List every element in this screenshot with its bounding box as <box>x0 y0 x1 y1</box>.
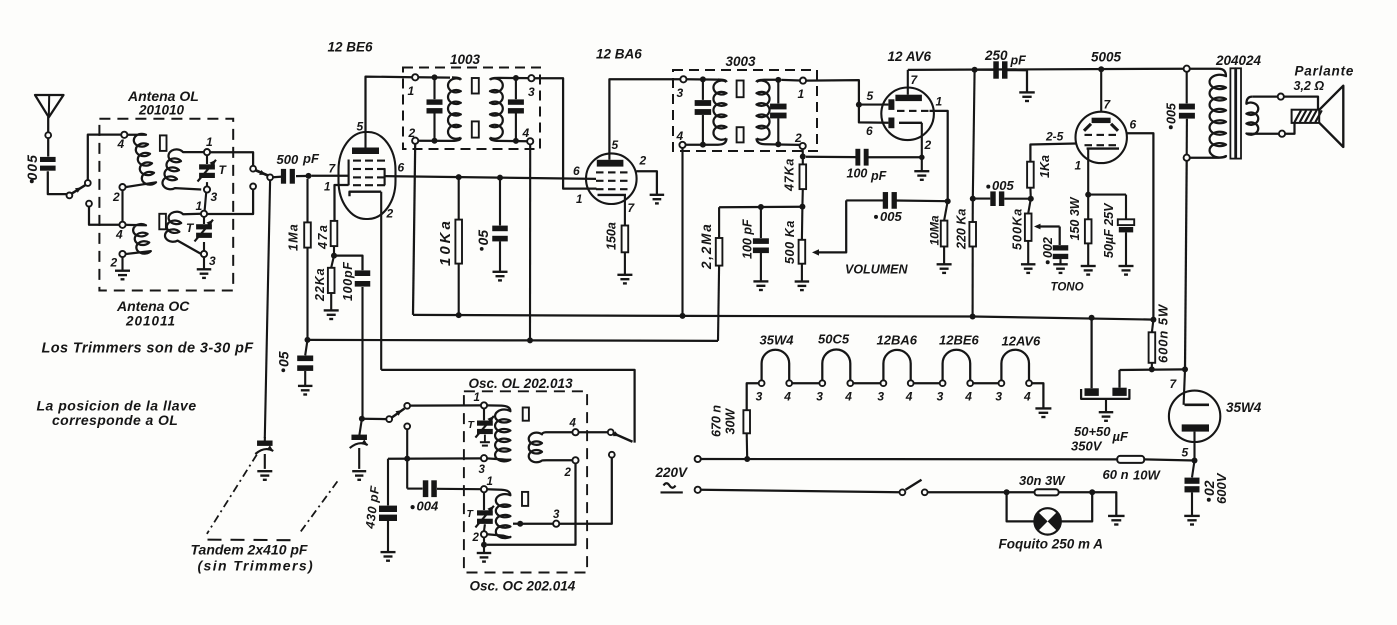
ground .002 <box>1053 263 1068 265</box>
node <box>527 337 533 343</box>
capacitor tandem C1 <box>264 437 266 441</box>
svg-text:201011: 201011 <box>125 314 176 329</box>
wire <box>206 155 208 164</box>
tube 12AV6 cathode <box>899 122 922 124</box>
transformer Antena OL secondary pin 3 <box>204 186 210 192</box>
node <box>700 76 706 82</box>
heater chain links <box>792 382 819 384</box>
node <box>1192 458 1198 464</box>
IFT 3003 terminal 1 <box>800 78 806 84</box>
wire osc switch to OL pin1 <box>410 404 481 406</box>
resistor 30ohm 3W <box>1007 491 1035 493</box>
pilot lamp Foquito <box>1007 492 1035 521</box>
volume wiper <box>816 200 847 252</box>
svg-text:2: 2 <box>794 131 802 145</box>
svg-text:3: 3 <box>816 390 823 404</box>
node <box>432 74 438 80</box>
wire <box>687 78 719 81</box>
leader horizontal <box>208 539 294 542</box>
resistor 22K <box>331 256 334 268</box>
ground 10M <box>937 263 952 265</box>
node <box>331 253 337 259</box>
svg-text:4: 4 <box>569 418 577 430</box>
osc OL coil pin2 <box>572 457 578 463</box>
svg-text:1003: 1003 <box>450 52 481 67</box>
svg-text:220V: 220V <box>655 465 689 480</box>
wire diode load <box>719 206 802 209</box>
core IFT3003 <box>737 81 744 98</box>
capacitor .005 antenna <box>40 157 56 162</box>
capacitor .005 output <box>1186 72 1188 104</box>
svg-text:4: 4 <box>117 137 125 151</box>
wire AC line top <box>701 458 1117 461</box>
resistor 47ohm <box>331 221 338 246</box>
svg-text:6: 6 <box>866 124 873 138</box>
tube 50C5 plate <box>1092 118 1111 123</box>
node <box>1004 489 1010 495</box>
tube 12AV6 pin1 wire <box>930 111 948 201</box>
resistor 670ohm ballast <box>743 410 750 433</box>
tube 50C5 envelope <box>1076 112 1127 163</box>
tube 12BA6 pin5 lead <box>608 153 610 159</box>
capacitor 50uF 25V <box>1088 194 1126 196</box>
wire OL pin1 to band switch <box>210 152 253 165</box>
svg-text:204024: 204024 <box>1215 53 1262 68</box>
svg-text:2-5: 2-5 <box>1045 130 1064 144</box>
core osc OL <box>523 408 529 421</box>
wire screen bus 12BE6 pin6 to 12BA6 pin6 <box>385 176 596 179</box>
trimmer T osc OL <box>477 421 493 426</box>
power switch <box>900 489 906 495</box>
svg-text:50µF 25V: 50µF 25V <box>1102 202 1116 258</box>
svg-text:3: 3 <box>209 254 216 268</box>
node <box>456 312 462 318</box>
resistor 1K <box>1029 188 1032 199</box>
ground .05 screen <box>493 271 508 273</box>
wire 12AV6 plate line <box>908 69 1187 70</box>
coil IFT3003 primary <box>713 81 726 140</box>
svg-text:5005: 5005 <box>1091 50 1122 65</box>
IFT 3003 terminal 3 <box>680 76 686 82</box>
resistor 150ohm <box>622 226 629 253</box>
wire heater left <box>747 383 759 410</box>
tube 12AV6 pin5 wire <box>859 104 889 106</box>
wire to Antena OC pin 4 <box>89 207 120 225</box>
node <box>1150 317 1156 323</box>
node <box>1089 315 1095 321</box>
svg-text:35W4: 35W4 <box>760 333 795 348</box>
svg-text:005: 005 <box>24 154 40 180</box>
svg-text:2: 2 <box>386 207 394 221</box>
wire AVC bus <box>308 340 719 341</box>
wire heater right to ground <box>1032 383 1044 408</box>
svg-text:2: 2 <box>112 190 120 204</box>
svg-text:4: 4 <box>522 126 530 140</box>
ground tandem C2 <box>352 470 366 472</box>
node <box>1028 196 1034 202</box>
tube 12BA6 envelope <box>586 153 637 204</box>
ground 150 3W <box>1081 265 1096 267</box>
switch S1b common <box>267 174 273 180</box>
tube 35W4 envelope <box>1169 391 1220 442</box>
terminal antenna <box>45 132 51 138</box>
tube 12AV6 diode plates <box>888 99 894 110</box>
heater 50C5 <box>822 350 850 381</box>
trimmer T Antena OL <box>199 164 215 169</box>
wire <box>781 79 800 82</box>
wire osc OC contact down <box>559 458 612 524</box>
switch S1a contact OL <box>85 180 91 186</box>
wire IFT1003 pin4 down to AVC bus <box>529 144 531 340</box>
resistor 60ohm 10W <box>1117 456 1144 463</box>
wire <box>203 217 205 224</box>
tube 35W4 pin5 lead <box>1193 432 1195 461</box>
capacitor 250pF <box>975 69 994 71</box>
ground volume pot <box>795 280 810 282</box>
node <box>1089 489 1095 495</box>
svg-text:600V: 600V <box>1214 472 1229 504</box>
wire IFT3003 pin2 down <box>802 149 804 156</box>
wire to chassis ground <box>1092 492 1116 515</box>
svg-text:500: 500 <box>277 152 299 167</box>
resistor 2.2M <box>718 207 720 238</box>
tube 35W4 plate <box>1185 403 1210 406</box>
ground 12BA6 pin2 <box>650 194 665 196</box>
tube 12AV6 pin6 wire <box>859 105 889 123</box>
svg-text:Foquito 250 m A: Foquito 250 m A <box>999 537 1104 552</box>
coil IFT1003 primary <box>448 78 461 138</box>
node <box>799 204 805 210</box>
tube 12BE6 plate <box>352 148 379 155</box>
svg-text:600n 5W: 600n 5W <box>1156 303 1171 363</box>
transformer 204024 primary terminal top <box>1184 66 1190 72</box>
wire IFT3003 pin1 to 12AV6 diodes <box>806 80 859 105</box>
node <box>758 204 764 210</box>
osc switch contact OC <box>404 423 410 429</box>
node <box>497 175 503 181</box>
svg-text:Osc. OC 202.014: Osc. OC 202.014 <box>470 579 576 594</box>
svg-text:1: 1 <box>798 87 805 101</box>
ground heater chain <box>1035 407 1051 409</box>
coil L2b secondary <box>165 212 201 254</box>
svg-text:005: 005 <box>1165 102 1179 124</box>
wire <box>273 175 283 178</box>
svg-text:002: 002 <box>1041 237 1055 258</box>
svg-text:22Ka: 22Ka <box>313 268 327 302</box>
potentiometer 500K tone <box>1028 199 1031 214</box>
IFT 3003 terminal 4 <box>679 142 685 148</box>
coil IFT3003 secondary <box>757 81 770 140</box>
svg-text:201010: 201010 <box>138 103 185 118</box>
tube 12AV6 pin2 lead <box>921 123 923 171</box>
tube 12AV6 envelope <box>881 88 934 141</box>
tube 50C5 cathode <box>1087 147 1119 149</box>
capacitor tandem C2 <box>359 419 362 435</box>
tube 12AV6 grid <box>897 110 905 112</box>
svg-text:100: 100 <box>847 167 868 181</box>
svg-text:005: 005 <box>992 178 1014 193</box>
svg-text:150a: 150a <box>605 222 619 250</box>
resistor 220K <box>973 70 975 199</box>
node <box>680 313 686 319</box>
wire <box>47 138 49 157</box>
ground .05 AVC <box>298 385 313 387</box>
coil L1a primary <box>125 134 156 187</box>
tube 12AV6 plate <box>895 95 922 101</box>
heater 12AV6 <box>1001 350 1029 381</box>
svg-text:3: 3 <box>877 390 884 404</box>
ground 250pF <box>1019 91 1035 93</box>
transformer Antena OC secondary pin 1 <box>201 211 207 217</box>
osc band switch contact OC <box>609 452 615 458</box>
node grid 12BE6 <box>306 173 312 179</box>
tube 12AV6 pin7 lead <box>907 70 909 95</box>
svg-text:5: 5 <box>1182 446 1189 460</box>
heater 35W4 <box>762 350 790 381</box>
tube 50C5 beam plates <box>1084 124 1091 131</box>
svg-text:1: 1 <box>576 194 582 206</box>
svg-text:500Ka: 500Ka <box>1011 208 1025 250</box>
svg-text:4: 4 <box>964 390 972 404</box>
wire <box>206 182 208 186</box>
coil IFT1003 secondary <box>490 78 503 138</box>
svg-text:12BA6: 12BA6 <box>877 333 918 348</box>
svg-text:10W: 10W <box>1133 468 1161 483</box>
core Antena OL <box>160 135 167 151</box>
node <box>404 456 410 462</box>
wire pin3-OL to pin1-OC <box>205 193 207 211</box>
wire pin5 to IFT1003 pin1 <box>366 77 413 132</box>
wire <box>1284 97 1318 110</box>
capacitor .004 <box>407 488 422 490</box>
ground 50uF <box>1119 265 1134 267</box>
switch S1a common <box>67 193 73 199</box>
wire <box>203 242 205 251</box>
svg-text:1: 1 <box>196 199 203 213</box>
IFT 1003 terminal 1 <box>412 74 418 80</box>
switch S1b contact OL <box>250 166 256 172</box>
ground 12AV6 cathode <box>914 170 929 172</box>
svg-text:35W4: 35W4 <box>1226 400 1262 415</box>
ground 430pF <box>381 551 396 553</box>
svg-text:350V: 350V <box>1071 439 1103 454</box>
wire speaker top <box>1252 95 1278 97</box>
coil osc OL primary <box>487 405 511 461</box>
svg-text:670 n: 670 n <box>710 405 724 437</box>
transformer 204024 primary terminal bottom <box>1184 155 1190 161</box>
wire OL pin2 to OC pin4 <box>121 190 123 222</box>
svg-text:100pF: 100pF <box>341 261 355 301</box>
node <box>1182 366 1188 372</box>
antenna <box>35 95 64 117</box>
switch S1a contact OC <box>86 201 92 207</box>
capacitor 500pF <box>281 169 286 184</box>
svg-text:6: 6 <box>573 164 580 178</box>
wire speaker bottom <box>1252 133 1279 135</box>
capacitor IFT3003 left <box>702 79 704 100</box>
svg-text:2: 2 <box>408 126 416 140</box>
svg-text:Parlante: Parlante <box>1295 64 1355 79</box>
svg-text:12 AV6: 12 AV6 <box>888 49 932 64</box>
node <box>945 198 951 204</box>
wire 100pF to osc switch <box>359 416 365 422</box>
svg-text:004: 004 <box>417 499 439 514</box>
capacitor 430pF <box>387 459 389 506</box>
node <box>775 77 781 83</box>
osc switch arm <box>392 409 405 418</box>
capacitor .002 <box>1053 245 1069 250</box>
resistor 600ohm 5W <box>1152 320 1154 333</box>
trimmer T Antena OC <box>196 224 212 229</box>
tube 12BE6 cathode <box>350 192 382 197</box>
svg-text:5: 5 <box>357 120 364 134</box>
svg-text:30W: 30W <box>724 408 738 435</box>
tube 50C5 pin7 lead <box>1100 69 1102 112</box>
svg-text:2: 2 <box>924 138 932 152</box>
transformer Antena OC secondary pin 3 <box>201 251 207 257</box>
coil osc OC primary <box>487 489 511 538</box>
svg-text:1Ka: 1Ka <box>1038 155 1052 178</box>
svg-text:005: 005 <box>880 209 902 224</box>
resistor 10K <box>458 177 460 220</box>
svg-text:6: 6 <box>1130 118 1137 132</box>
capacitor .02 600V <box>1192 461 1195 478</box>
capacitor 100pF osc grid <box>334 256 363 271</box>
IFT 3003 dashed box <box>673 70 817 151</box>
transformer Antena OL primary pin 2 <box>119 184 125 190</box>
svg-text:12BE6: 12BE6 <box>939 333 980 348</box>
capacitor .05 screen <box>499 178 501 226</box>
resistor 10M <box>944 201 948 220</box>
svg-text:µF: µF <box>1112 429 1129 444</box>
coil 204024 secondary <box>1246 97 1258 135</box>
ground tandem C1 <box>257 470 272 472</box>
ground trimmer OL <box>484 435 486 442</box>
tube 12BE6 pin 7 wire <box>312 175 349 177</box>
tube 12BA6 pin7 lead <box>624 195 626 226</box>
svg-text:TONO: TONO <box>1051 282 1084 294</box>
svg-text:1: 1 <box>487 476 493 488</box>
AC terminal bottom <box>695 487 701 493</box>
ground Antena OC pin 2 <box>121 257 123 270</box>
node detector <box>800 154 806 160</box>
tube 50C5 pin1 lead <box>1087 149 1089 195</box>
tube 50C5 pin6 wire <box>1127 133 1154 319</box>
svg-text:100 pF: 100 pF <box>741 219 755 259</box>
svg-text:VOLUMEN: VOLUMEN <box>845 263 908 277</box>
svg-text:corresponde a OL: corresponde a OL <box>52 412 178 428</box>
core 204024 <box>1230 68 1235 158</box>
svg-text:6: 6 <box>398 161 405 175</box>
ground 100pF detector <box>753 280 768 282</box>
osc switch common <box>386 416 392 422</box>
IFT 1003 terminal 3 <box>528 75 534 81</box>
capacitor 100pF detector <box>760 207 762 238</box>
tube 12BA6 plate <box>597 160 624 167</box>
ground AC return <box>1108 515 1125 517</box>
svg-text:3: 3 <box>553 509 560 521</box>
tube 35W4 cathode <box>1182 424 1209 431</box>
wire to Antena OL pin 4 <box>88 135 122 181</box>
svg-text:1: 1 <box>1075 159 1082 173</box>
IFT 1003 terminal 4 <box>527 138 533 144</box>
speaker terminal bottom <box>1279 131 1285 137</box>
node <box>744 456 750 462</box>
wire <box>483 524 486 531</box>
osc OL coil pin3 <box>481 455 487 461</box>
osc OL coil pin1 <box>481 402 487 408</box>
potentiometer 500K volume <box>801 207 804 240</box>
wire <box>296 175 311 177</box>
svg-text:4: 4 <box>844 390 852 404</box>
wire IFT1003 pin3 to 12BA6 grid riser <box>535 78 597 188</box>
wire 12BA6 plate to IFT3003 pin3 <box>609 79 680 153</box>
node <box>970 314 976 320</box>
svg-text:47a: 47a <box>316 224 330 250</box>
leader tandem C1 <box>207 455 257 534</box>
resistor 47K <box>802 157 804 165</box>
node <box>481 542 487 548</box>
ground 22K <box>324 309 339 311</box>
ground osc OC <box>477 552 492 554</box>
wire AC line bottom <box>701 490 900 492</box>
ground tone pot <box>1021 263 1035 265</box>
capacitor 50+50uF <box>1090 318 1092 389</box>
wire 1K to 50C5 grid <box>1030 144 1076 162</box>
coil osc OL secondary <box>529 432 573 462</box>
trimmer T osc OC <box>477 510 493 515</box>
capacitor .005 coupling <box>973 198 991 200</box>
transformer Antena OL primary pin 4 <box>121 132 127 138</box>
svg-text:50C5: 50C5 <box>818 332 850 347</box>
coil L1b secondary <box>162 149 204 189</box>
svg-text:50+50: 50+50 <box>1074 424 1111 439</box>
wire IFT3003 pin4 to B+ bus <box>681 148 683 316</box>
speaker cone <box>1319 86 1343 147</box>
svg-text:1Ma: 1Ma <box>287 223 301 251</box>
transformer Antena OL secondary pin 1 <box>204 149 210 155</box>
switch S1b arm <box>256 170 268 175</box>
svg-text:4: 4 <box>905 390 913 404</box>
svg-text:2,2Ma: 2,2Ma <box>699 222 714 270</box>
transformer Antena OC primary pin 4 <box>119 222 125 228</box>
wire <box>483 492 485 510</box>
wire <box>520 523 553 525</box>
wire osc band switch <box>578 431 607 433</box>
node <box>513 75 519 81</box>
heater 12BA6 <box>883 350 910 381</box>
wire osc switch OC down <box>406 429 408 488</box>
ground .02 <box>1184 515 1200 517</box>
switch S1a arm <box>72 185 85 193</box>
svg-text:30n 3W: 30n 3W <box>1019 473 1066 488</box>
wire osc OL pin2 to ground rail <box>487 463 576 545</box>
node <box>856 102 862 108</box>
capacitor 100pF cathode <box>806 156 856 159</box>
osc dashed box <box>464 391 587 572</box>
osc OL coil pin4 <box>572 429 578 435</box>
svg-text:12 BA6: 12 BA6 <box>596 47 642 62</box>
svg-text:1: 1 <box>324 182 330 194</box>
svg-text:1: 1 <box>408 84 415 98</box>
svg-text:Antena OC: Antena OC <box>116 298 190 314</box>
svg-text:3: 3 <box>995 390 1002 404</box>
wire <box>48 171 67 194</box>
coil 204024 primary <box>1190 69 1226 158</box>
svg-text:250: 250 <box>984 48 1008 63</box>
osc OC coil pin3 <box>553 521 559 527</box>
capacitor .005 volume-to-grid <box>883 192 888 209</box>
